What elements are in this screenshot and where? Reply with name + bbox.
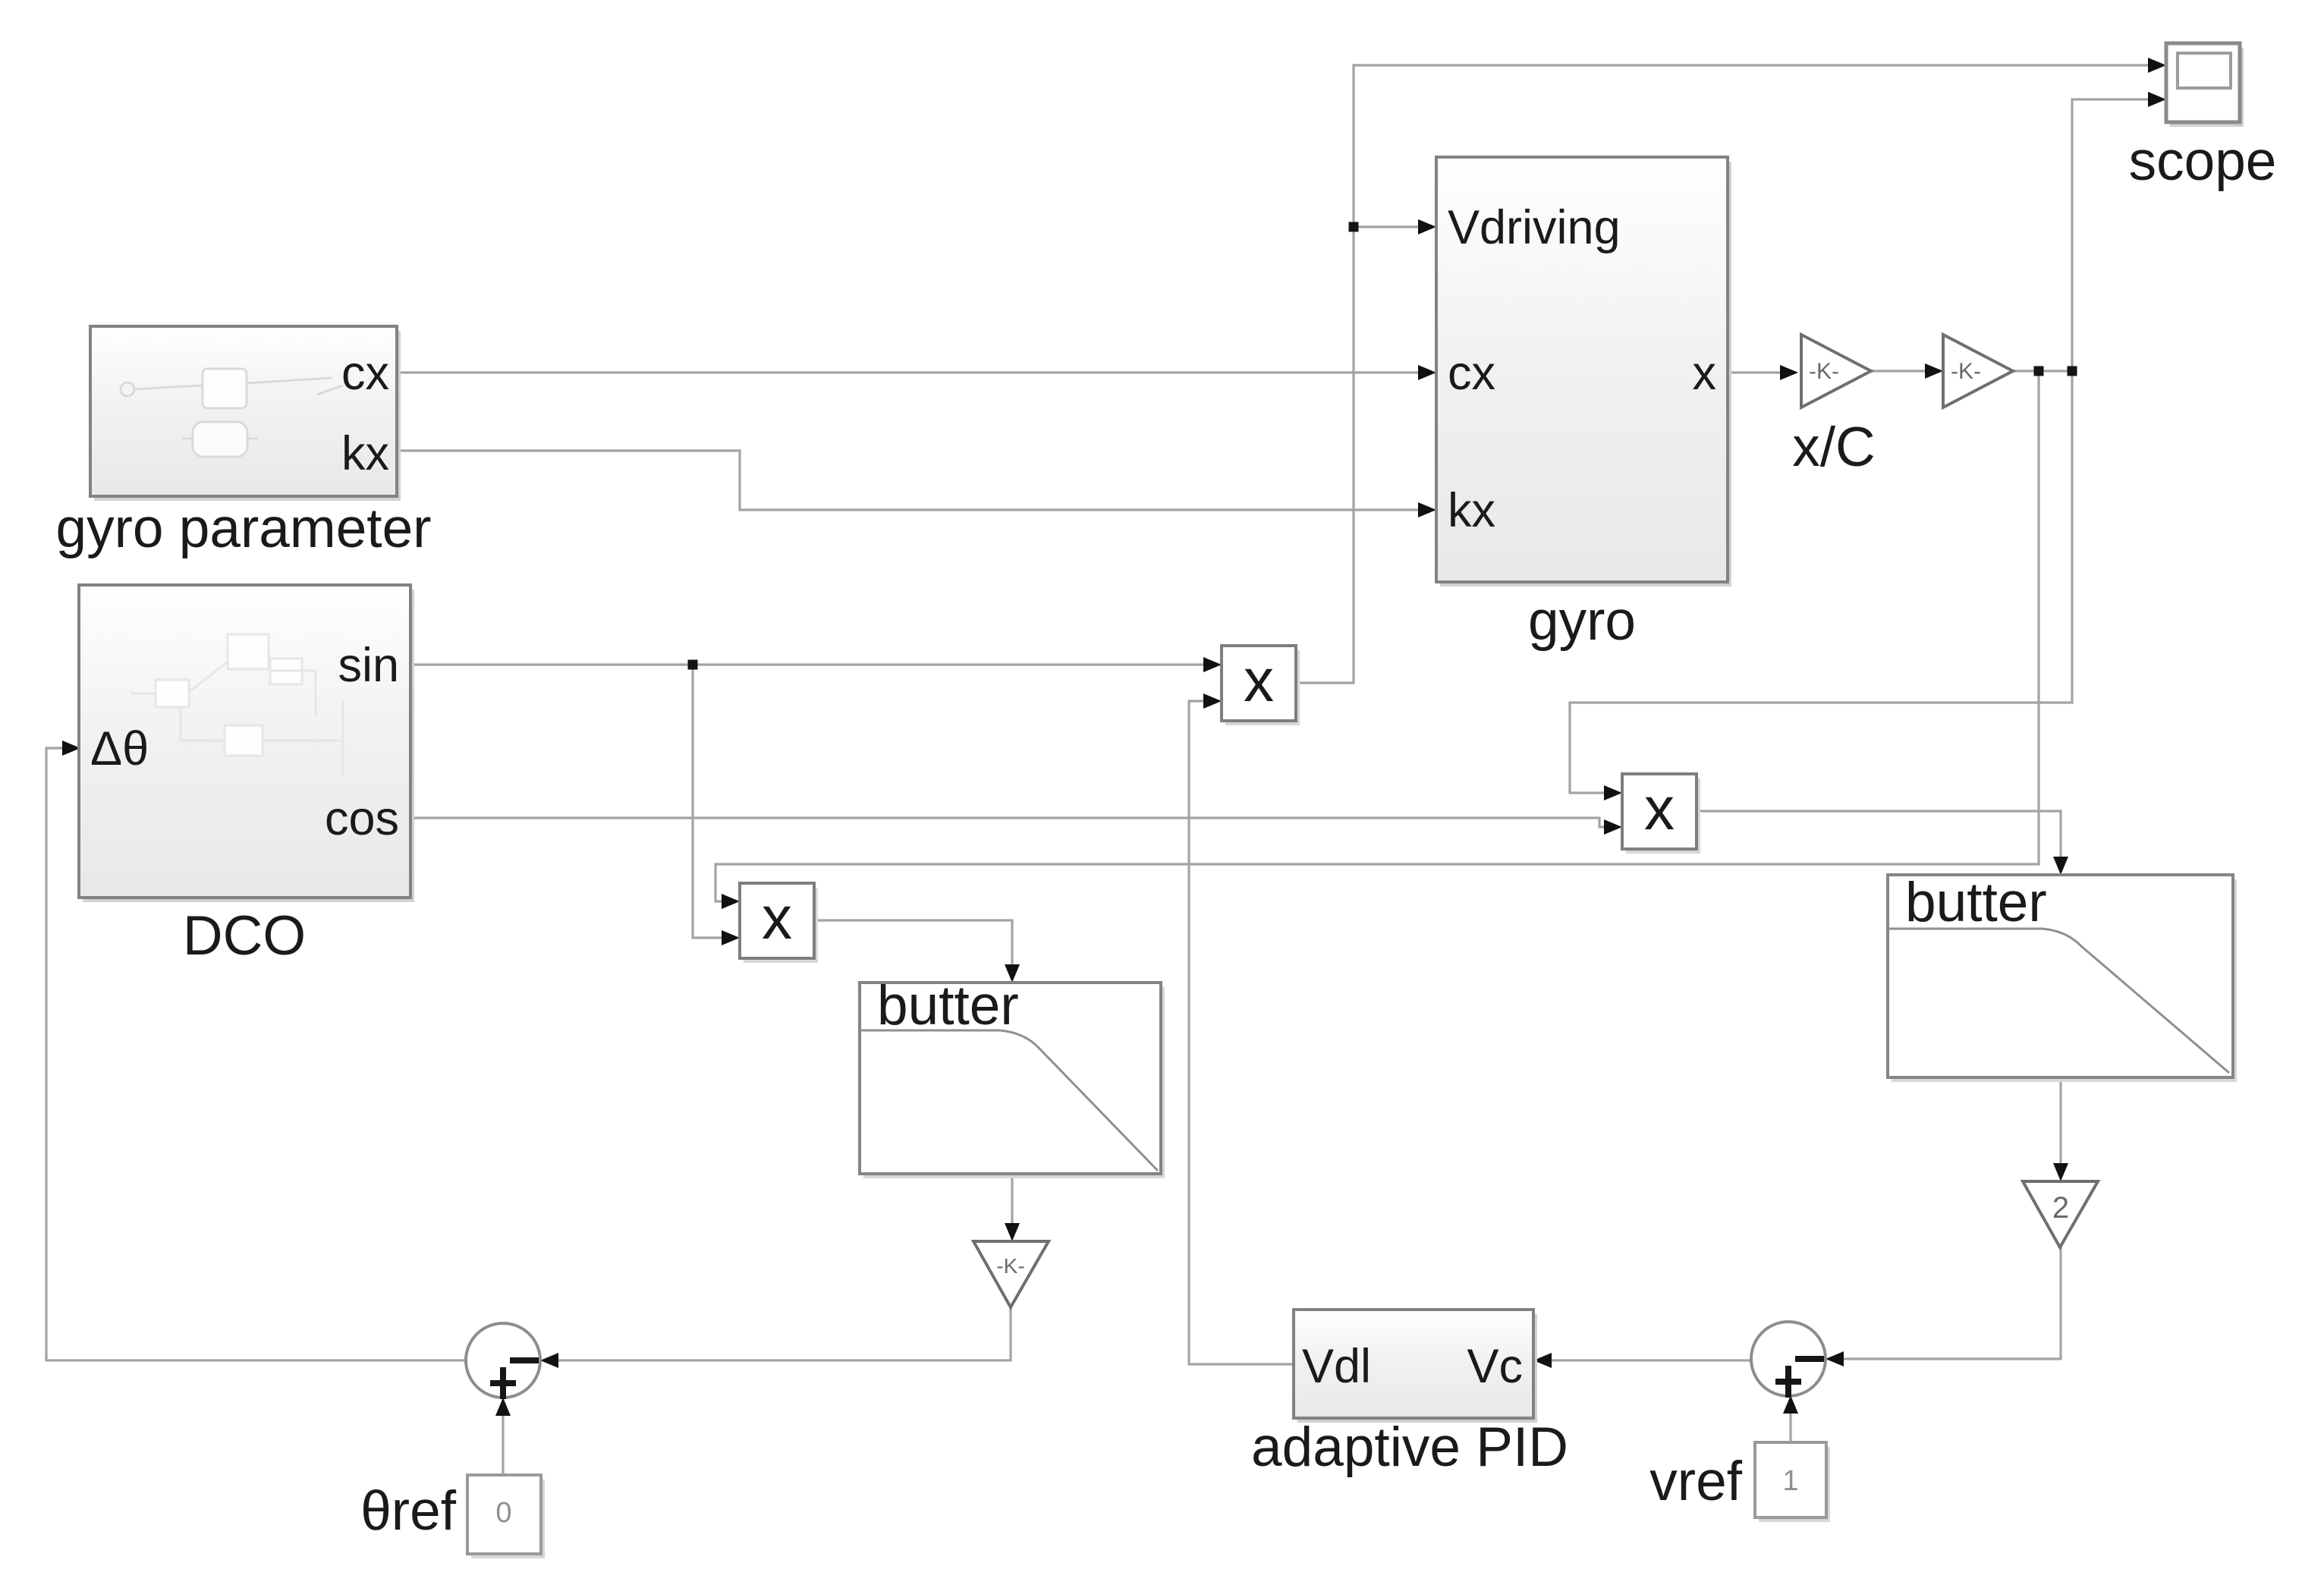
wire right butter output to gain4 bbox=[2059, 1077, 2061, 1176]
svg-text:Vdriving: Vdriving bbox=[1448, 201, 1621, 254]
svg-text:x: x bbox=[1693, 347, 1717, 400]
block product3 (x sin) bbox=[744, 888, 818, 963]
svg-text:scope: scope bbox=[2129, 131, 2277, 192]
wire vref-sum output to adaptive PID Vc input bbox=[1539, 1359, 1751, 1361]
sum1 theta error (minus right, plus bottom) bbox=[466, 1323, 540, 1398]
wire branch to gyro Vdriving bbox=[1354, 225, 1431, 228]
svg-text:adaptive PID: adaptive PID bbox=[1251, 1417, 1568, 1478]
svg-text:θref: θref bbox=[360, 1480, 457, 1542]
svg-text:DCO: DCO bbox=[183, 905, 306, 967]
svg-text:x: x bbox=[1644, 775, 1675, 842]
block butter filter left bbox=[863, 987, 1165, 1178]
svg-text:2: 2 bbox=[2052, 1191, 2069, 1225]
svg-text:gyro: gyro bbox=[1528, 590, 1636, 652]
block gyro (subsystem) bbox=[1440, 162, 1731, 587]
wire product1 output up to scope input1 bbox=[1296, 65, 2161, 683]
svg-text:-K-: -K- bbox=[1809, 359, 1839, 384]
svg-text:kx: kx bbox=[1448, 484, 1495, 537]
constant theta-ref value 0 bbox=[471, 1480, 545, 1558]
block DCO (subsystem) bbox=[83, 590, 414, 902]
wire theta-ref constant up to theta-sum bbox=[502, 1403, 504, 1475]
svg-text:sin: sin bbox=[338, 639, 399, 692]
wire up to scope input2 bbox=[2072, 99, 2161, 371]
svg-text:kx: kx bbox=[341, 427, 389, 480]
svg-text:-K-: -K- bbox=[1951, 359, 1981, 384]
block adaptive PID (subsystem) bbox=[1297, 1314, 1537, 1423]
wire left butter output to gain3 bbox=[1011, 1174, 1013, 1236]
wire Vdl: adaptive PID output up to product1 input2 bbox=[1189, 701, 1294, 1364]
block product2 (x cos) bbox=[1626, 778, 1700, 854]
svg-text:gyro parameter: gyro parameter bbox=[56, 498, 432, 559]
block scope bbox=[2170, 48, 2244, 127]
wire feedback: theta-sum output to DCO dtheta input bbox=[46, 748, 466, 1360]
wire gain1 to gain2 bbox=[1871, 370, 1938, 372]
wire gain3 output to theta-sum right input bbox=[546, 1306, 1011, 1360]
svg-text:cx: cx bbox=[341, 347, 389, 400]
wire product2 output to right butter bbox=[1697, 811, 2061, 870]
svg-text:Vc: Vc bbox=[1467, 1340, 1523, 1393]
svg-text:vref: vref bbox=[1649, 1451, 1742, 1512]
wire vref constant up to vref-sum bbox=[1789, 1401, 1791, 1442]
wire down-left to product2 input1 bbox=[1570, 371, 2072, 793]
wire gain4 output to vref-sum right input bbox=[1831, 1247, 2061, 1359]
block gyro parameter (subsystem) bbox=[94, 331, 401, 501]
svg-text:butter: butter bbox=[1905, 872, 2047, 933]
wire sin: DCO sin to product1 input1 bbox=[410, 663, 1216, 665]
svg-text:cos: cos bbox=[325, 792, 399, 845]
gain3 -K- triangle pointing down bbox=[973, 1241, 1049, 1307]
gain x/C first -K- triangle bbox=[1801, 335, 1871, 407]
gain4 gain-2 triangle pointing down bbox=[2023, 1181, 2098, 1247]
wire product3 output to left butter bbox=[813, 920, 1012, 977]
svg-text:x: x bbox=[1244, 646, 1274, 714]
svg-text:-K-: -K- bbox=[996, 1254, 1024, 1278]
svg-text:Vdl: Vdl bbox=[1302, 1340, 1371, 1393]
wire gain2 output bbox=[2011, 370, 2072, 372]
wire gyro x output to gain1 bbox=[1728, 371, 1793, 373]
svg-text:x/C: x/C bbox=[1792, 417, 1876, 478]
block product1 (sin x Vdl) bbox=[1225, 650, 1300, 725]
svg-text:1: 1 bbox=[1782, 1465, 1798, 1497]
gain second -K- triangle bbox=[1943, 335, 2013, 407]
constant vref value 1 bbox=[1759, 1447, 1830, 1522]
wire cos: DCO cos to product2 input2 bbox=[410, 818, 1617, 827]
svg-text:x: x bbox=[762, 884, 792, 951]
svg-text:butter: butter bbox=[877, 975, 1019, 1036]
wire cx: gyro parameter cx to gyro cx bbox=[397, 371, 1431, 373]
svg-text:0: 0 bbox=[495, 1497, 511, 1529]
wire kx: gyro parameter kx to gyro kx bbox=[397, 451, 1431, 510]
block butter filter right bbox=[1892, 879, 2237, 1082]
sum2 v error (minus right, plus bottom) bbox=[1751, 1322, 1826, 1396]
svg-text:cx: cx bbox=[1448, 347, 1495, 400]
svg-text:Δθ: Δθ bbox=[90, 722, 149, 775]
wire long branch to product3 input1 bbox=[715, 371, 2039, 901]
wire sin branch down to product3 input2 bbox=[693, 665, 734, 938]
